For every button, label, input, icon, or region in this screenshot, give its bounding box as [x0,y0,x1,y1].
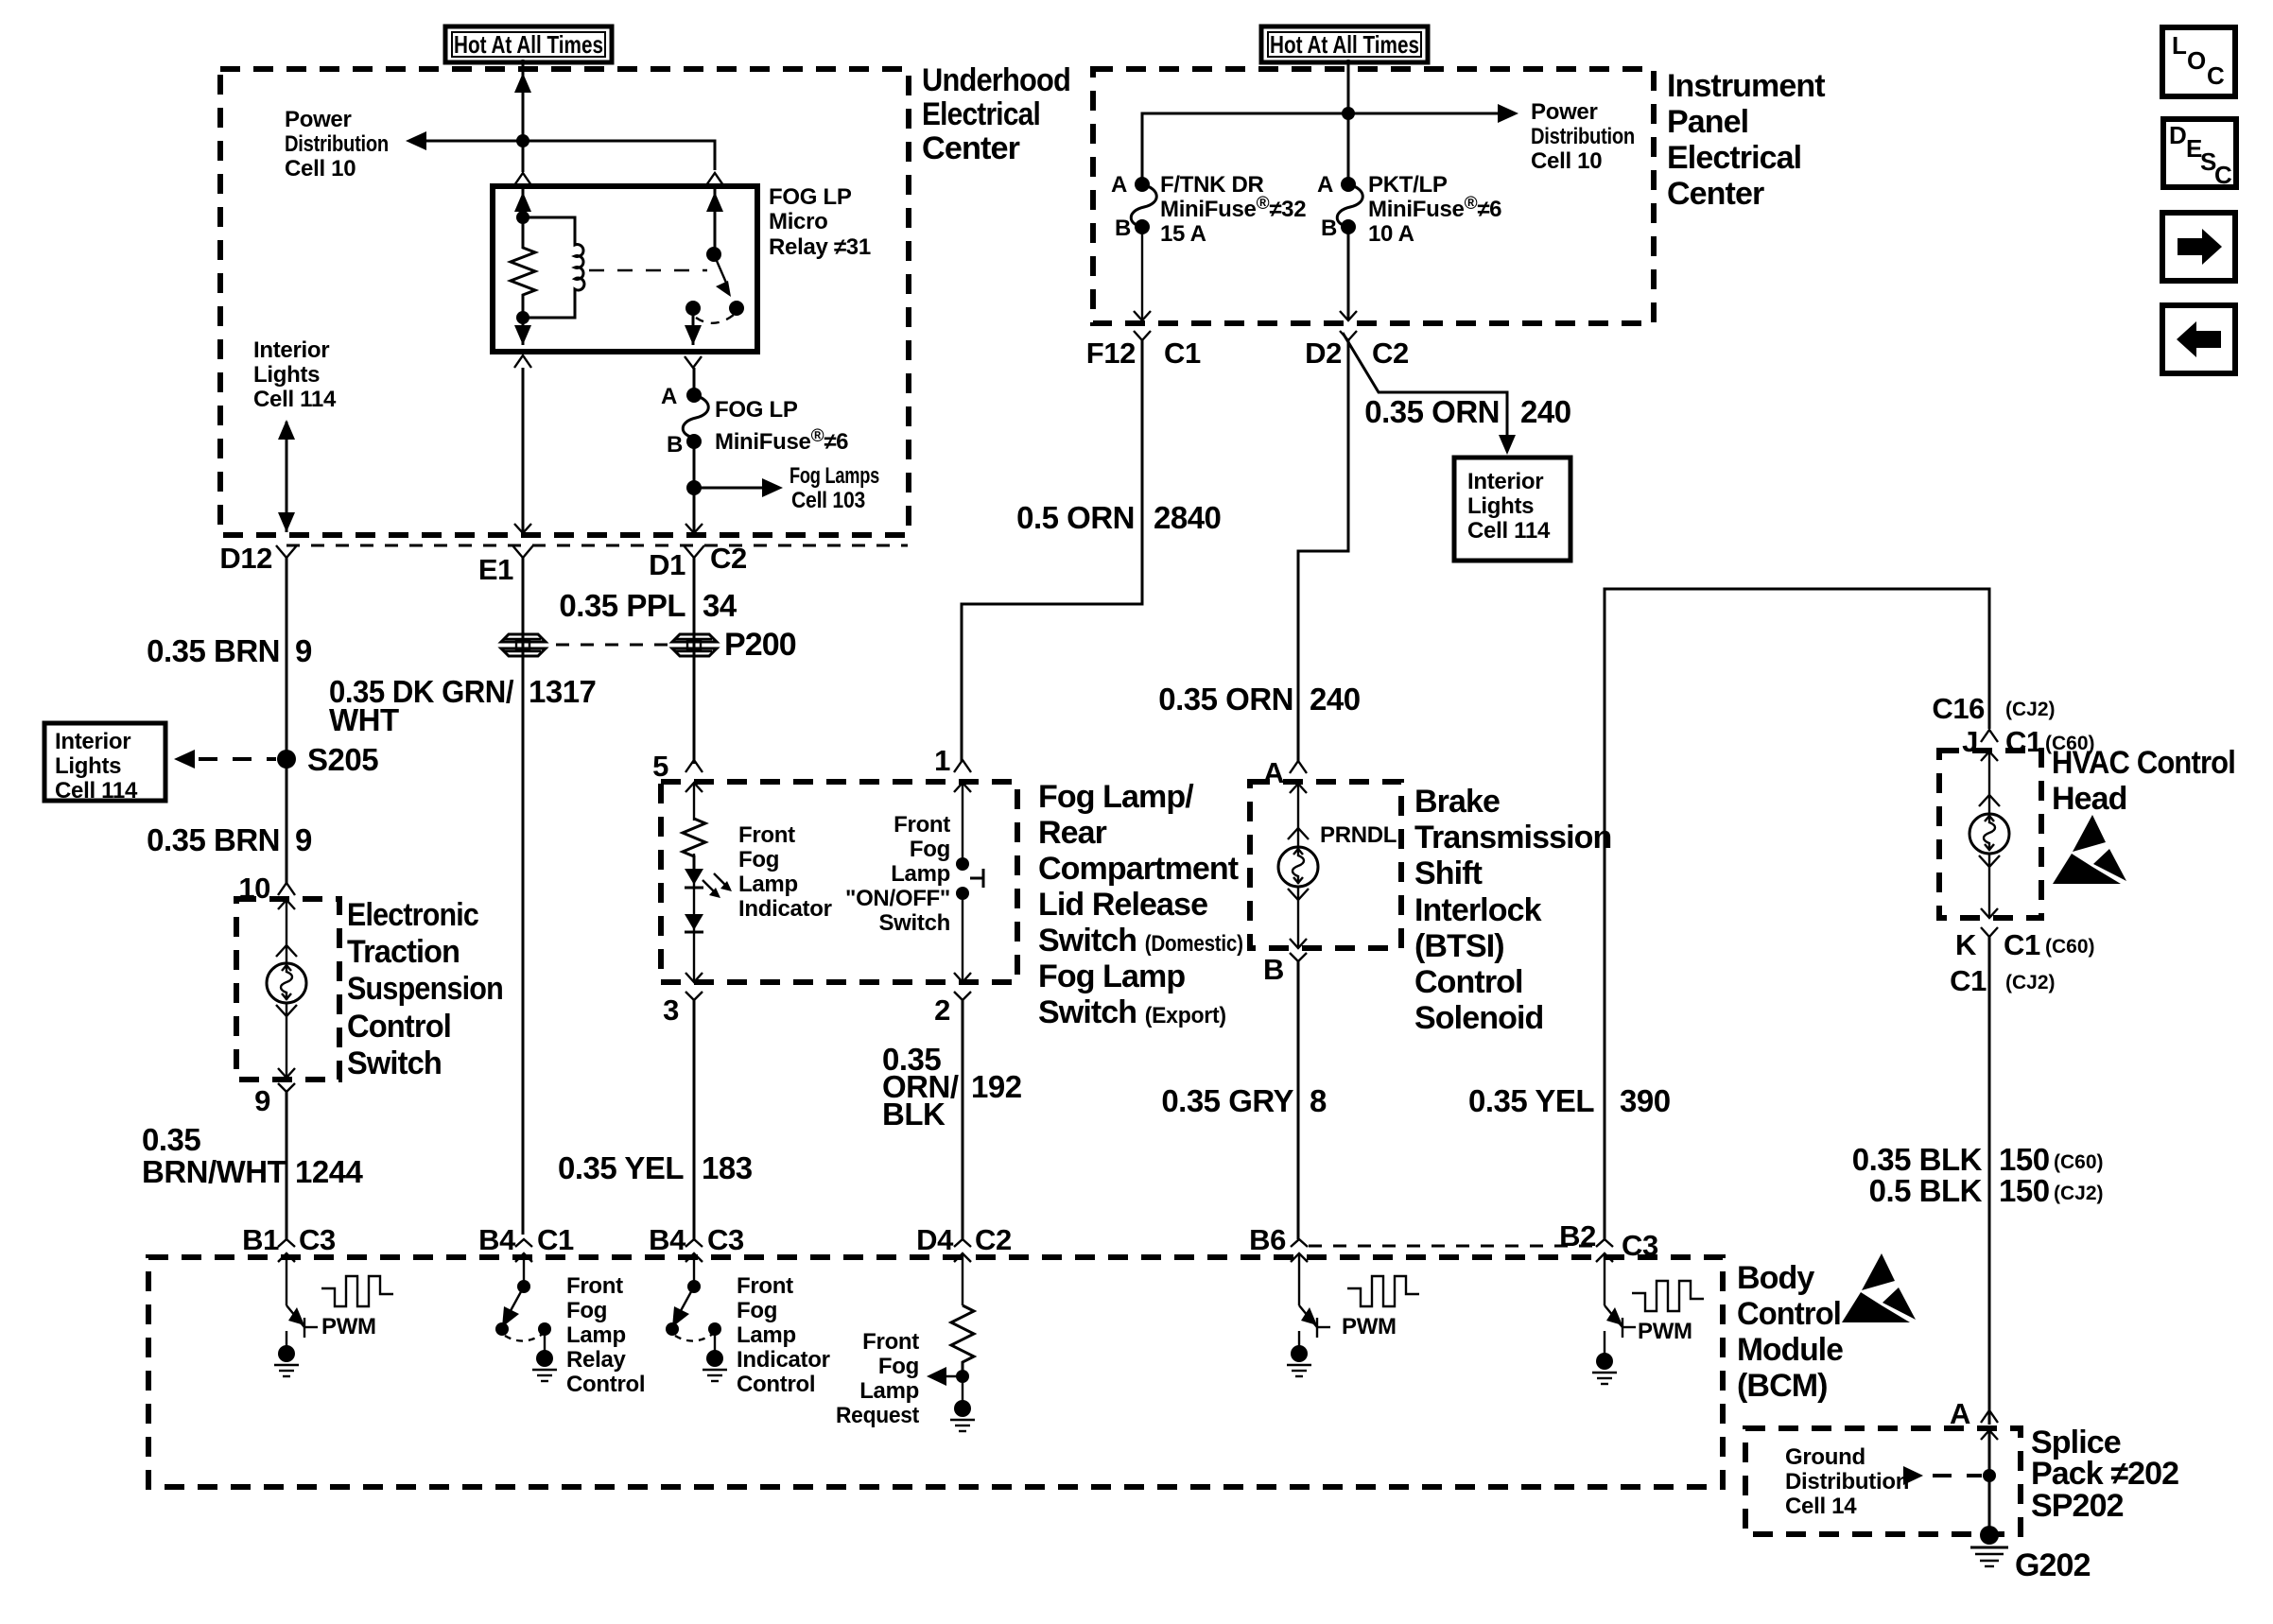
svg-text:(CJ2): (CJ2) [2005,972,2056,993]
svg-text:B2: B2 [1559,1219,1596,1253]
ESD symbol (BCM) [1842,1253,1916,1322]
arrow up interior lights (underhood) [278,420,295,440]
svg-text:C2: C2 [710,542,747,575]
arrow down inside HVAC [1981,908,1998,918]
BCM input D4: resistor to ground [927,1253,975,1431]
svg-text:0.35 YEL: 0.35 YEL [1468,1083,1594,1118]
svg-text:C1: C1 [1950,964,1987,997]
arrow left power distribution (underhood) [406,131,426,150]
BCM switch B4/C3: indicator control output [666,1253,727,1381]
node junction hot/power dist (underhood) [516,134,529,147]
wire indicator leg lower inside fog switch [693,953,695,982]
wire 0.35 ORN 240 run to BTSI [1298,338,1348,762]
fuse PKT/LP MiniFuse #6 element [1337,184,1362,227]
connector dashed link B6 to B2 [1309,1245,1594,1248]
svg-text:C1: C1 [537,1223,574,1256]
svg-text:1244: 1244 [295,1154,364,1189]
wire B2 riser to HVAC feed [1605,589,1989,1239]
svg-text:B1: B1 [242,1223,279,1256]
dashed throw arc of relay switch [696,315,734,323]
wire HVAC lower inside [1988,854,1990,918]
wire E1 inside underhood box [522,368,525,533]
svg-text:1: 1 [934,744,950,777]
svg-text:3: 3 [663,993,679,1027]
node SP202 junction [1983,1469,1996,1482]
box Underhood Electrical Center (dashed) [220,69,909,535]
svg-text:0.35 BRN: 0.35 BRN [147,633,280,668]
wire BTSI upper inside [1297,783,1299,847]
BCM driver B2: transistor, ground [1592,1253,1636,1384]
arrow up inside BTSI [1290,784,1307,793]
icon DESC box [2163,119,2236,189]
svg-text:D: D [2169,121,2187,149]
connector chevron D2/C2 [1340,331,1357,340]
box Instrument Panel Electrical Center (dashed) [1093,69,1654,323]
svg-text:0.35 BLK: 0.35 BLK [1852,1142,1983,1177]
svg-text:L: L [2172,31,2187,60]
connector chevron C16/J [1981,730,1998,742]
node fog lamps tap junction [686,480,702,495]
fuse FOG LP MiniFuse #6 element [683,395,708,438]
svg-text:E1: E1 [478,553,513,586]
arrow right fog lamps [762,478,783,497]
connector chevron relay switch pin top [706,173,723,185]
wire E1 segment below underhood box [522,558,525,1235]
arrow down D2 at instrument box bottom [1340,311,1357,320]
box Splice Pack 202 (dashed) [1745,1428,2021,1534]
svg-text:PWM: PWM [1342,1314,1397,1339]
box Interior Lights Cell 114 (instrument branch) [1454,458,1570,561]
node relay coil bottom junction [516,311,529,324]
connector chevron below relay coil pin [514,355,531,368]
svg-text:Hot At All Times: Hot At All Times [1270,30,1419,59]
svg-text:8: 8 [1310,1083,1327,1118]
lamp symbol PRNDL [1278,847,1318,887]
connector chevron pin 10 [278,883,295,895]
connector chevron E1 [512,545,533,558]
arrow down inside relay switch pin [685,325,702,345]
svg-text:(C60): (C60) [2045,936,2095,958]
wire interior lights double arrow [286,422,288,532]
fuse F/TNK DR MiniFuse #32 element [1131,184,1156,227]
wire BTSI to BCM B6 [1297,961,1300,1239]
svg-text:O: O [2187,46,2206,75]
connector chevron B4/C3 [685,1239,703,1247]
node fuse B terminal (F/TNK) [1135,219,1150,234]
dashed link between P200 halves [556,644,668,647]
wire inside traction switch lower [286,1003,287,1078]
node relay coil top junction [516,211,529,224]
box Body Control Module (dashed) [148,1257,1723,1487]
svg-text:B4: B4 [478,1223,516,1256]
wire hot feed into instrument panel box [1347,60,1350,184]
arrow down into interior lights box [1499,435,1516,455]
chevron below traction lamp [276,1005,297,1016]
svg-text:(CJ2): (CJ2) [2054,1183,2104,1204]
svg-text:B6: B6 [1249,1223,1286,1256]
on/off switch actuator bar [970,869,983,888]
node fuse A terminal (F/TNK) [1135,177,1150,192]
node junction hot/power dist (instrument) [1342,107,1355,120]
svg-text:0.35 ORN: 0.35 ORN [1364,394,1500,429]
chevron below BTSI lamp [1288,889,1309,900]
power label box "Hot At All Times" (underhood) [445,26,612,62]
svg-text:150: 150 [1999,1173,2050,1208]
box Interior Lights Cell 114 (left) [44,723,165,803]
arrow down interior lights at box bottom [278,512,295,532]
arrow down E1 at underhood box bottom [514,524,531,533]
PWM waveform (B2) [1632,1281,1704,1311]
svg-text:0.5 BLK: 0.5 BLK [1869,1173,1983,1208]
box BTSI Control Solenoid (dashed) [1250,782,1401,948]
wire fog lamps tap horizontal [694,487,764,490]
wire fuse B down to fog lamps tap [693,441,696,532]
arrow left to interior lights box [174,750,195,769]
relay coil winding [523,217,584,318]
connector chevron D12 [276,545,297,558]
connector chevron F12/C1 [1134,331,1151,340]
arrow right power distribution (instrument) [1498,104,1518,123]
wire power distribution horizontal (underhood) [426,141,715,170]
wire relay coil low side inside [522,318,525,345]
PWM waveform (B1) [321,1276,393,1306]
svg-text:0.35 PPL: 0.35 PPL [559,588,685,623]
svg-text:B: B [667,432,683,458]
box Electronic Traction Suspension Control Switch (dashed) [236,899,339,1080]
BCM switch B4/C1: relay control output [495,1253,557,1381]
wire splice pack through [1988,1430,1991,1528]
lamp symbol traction switch [267,963,306,1003]
svg-text:2: 2 [934,993,950,1027]
wire PKT/LP fuse output [1347,227,1350,320]
node relay switch arm tip [729,301,744,316]
svg-text:240: 240 [1520,394,1571,429]
BCM driver B6: transistor, ground [1287,1253,1330,1376]
svg-text:1317: 1317 [529,674,596,709]
svg-text:(C60): (C60) [2054,1151,2104,1173]
node splice S205 [277,750,296,769]
svg-text:240: 240 [1310,682,1361,717]
chevron above BTSI lamp [1288,828,1309,839]
BCM driver B1: arrow, transistor, ground [274,1253,318,1376]
node on/off switch lower contact [956,887,969,900]
arrow up inside traction switch [278,900,295,909]
svg-text:Hot At All Times: Hot At All Times [454,30,603,59]
svg-text:C2: C2 [1372,337,1409,370]
svg-text:5: 5 [652,750,668,783]
ground distribution arrow and dashed link [1903,1466,1982,1485]
svg-text:9: 9 [254,1084,270,1117]
svg-text:9: 9 [295,822,312,857]
wire D12 lower segment to BCM [286,1092,288,1239]
svg-text:C2: C2 [975,1223,1012,1256]
svg-text:D12: D12 [219,542,272,575]
node fuse B terminal (PKT/LP) [1341,219,1356,234]
wire HVAC upper inside [1988,752,1990,814]
svg-text:0.35 BRN: 0.35 BRN [147,822,280,857]
connector chevron below relay switch pin [685,356,702,368]
arrow up inside relay left pin [514,192,531,212]
wire relay output inside [692,308,695,345]
box Fog Lamp Switch (dashed) [661,782,1017,982]
svg-text:PWM: PWM [321,1314,376,1339]
power label box "Hot At All Times" (instrument panel) [1261,26,1428,62]
relay coil pin wire inside [522,189,525,218]
arrow up inside fog switch right [954,783,971,792]
wire inside traction switch upper [286,900,287,964]
wire pin3 to BCM B4/C3 [693,1000,696,1239]
svg-text:C: C [2214,161,2232,189]
arrow down inside relay left pin [514,325,531,345]
relay switch arm with arrowhead [714,254,731,297]
arrow down inside BTSI [1290,939,1307,948]
wire pin2 to BCM D4/C2 [962,1000,964,1239]
lamp symbol HVAC [1969,814,2009,854]
connector chevron pin 9 [278,1083,295,1092]
arrow up inside splice pack [1981,1430,1998,1440]
svg-text:B: B [1115,216,1131,241]
wire BTSI lower inside [1297,887,1299,948]
connector chevron pin 2 [954,992,971,1000]
connector chevron A splice [1981,1410,1998,1423]
svg-text:34: 34 [703,588,737,623]
node fuse A terminal (PKT/LP) [1341,177,1356,192]
label 0.5 BLK 150 (CJ2) [1869,1173,2104,1208]
connector chevron B1/C3 [278,1239,295,1247]
PWM waveform (B6) [1347,1276,1419,1306]
resistor inside relay [511,217,535,318]
connector chevron B6 [1291,1239,1308,1247]
svg-text:PRNDL: PRNDL [1320,822,1397,848]
relay actuation dashed link [589,269,707,271]
arrow up at underhood box top [514,73,531,93]
svg-text:D1: D1 [649,548,685,581]
chevron below HVAC lamp [1979,855,2000,867]
wire on/off switch upper inside [962,783,963,864]
wire on/off switch lower inside [962,893,963,982]
arrow up inside HVAC [1981,752,1998,761]
svg-text:0.5 ORN: 0.5 ORN [1016,500,1135,535]
svg-text:B: B [1263,953,1284,986]
svg-text:C3: C3 [1622,1229,1658,1262]
icon back-arrow box [2162,305,2235,373]
node fuse B terminal (fog lp) [686,434,702,449]
wire 0.5 ORN 2840 run [962,338,1142,762]
wire indicator leg upper inside fog switch [693,783,695,821]
node on/off switch upper contact [956,857,969,871]
wire HVAC ground run [1988,937,1991,1425]
svg-text:S205: S205 [307,742,378,777]
arrow down inside traction switch [278,1068,295,1078]
connector chevron relay coil pin top [514,173,531,185]
svg-text:G202: G202 [2015,1547,2091,1583]
svg-text:183: 183 [702,1150,753,1185]
chevron above HVAC lamp [1979,795,2000,806]
arrow up inside relay right pin [706,192,723,212]
relay switch pivot wire [714,189,717,249]
svg-text:2840: 2840 [1154,500,1221,535]
connector chevron B4/C1 [515,1239,532,1247]
wire branch 0.35 ORN 240 to interior lights [1343,333,1507,435]
wire hot feed into underhood box [522,60,525,141]
svg-text:C16: C16 [1932,692,1985,725]
svg-text:D2: D2 [1305,337,1342,370]
svg-text:C: C [2207,61,2225,90]
wire D1 segment below underhood box [693,558,696,764]
node fuse A terminal (fog lp) [686,388,702,403]
wire relay coil feed upper [522,141,525,172]
svg-text:P200: P200 [724,627,796,663]
svg-text:A: A [1950,1397,1970,1430]
svg-text:PWM: PWM [1638,1319,1692,1344]
svg-text:(CJ2): (CJ2) [2005,699,2056,720]
svg-text:C3: C3 [299,1223,336,1256]
svg-text:A: A [1317,172,1333,198]
icon LOC box [2162,27,2235,96]
svg-text:C1: C1 [1164,337,1201,370]
connector chevron pin A BTSI [1290,761,1307,773]
relay box FOG LP Micro Relay #31 [493,186,757,352]
ESD symbol (HVAC) [2053,815,2126,884]
svg-text:B: B [1321,216,1337,241]
inline connector P200 on E1 wire [501,634,546,656]
arrow down F12 at instrument box bottom [1134,311,1151,320]
arrow down inside fog switch right [954,973,971,982]
wire D12 segment to S205 [286,558,288,883]
svg-text:F12: F12 [1086,337,1136,370]
svg-text:A: A [661,384,677,409]
inline connector P200 on D1 wire [672,634,717,656]
label 0.35 BLK 150 (C60) [1852,1142,2104,1177]
resistor front fog lamp indicator [683,819,705,870]
box HVAC Control Head (dashed) [1939,751,2041,918]
svg-text:0.35 YEL: 0.35 YEL [558,1150,684,1185]
svg-text:A: A [1111,172,1127,198]
chevron above traction lamp [276,945,297,957]
node relay switch pivot [706,247,721,262]
svg-text:C1: C1 [2004,928,2040,961]
connector chevron pin 1 [954,760,971,772]
connector chevron pin 3 [685,992,703,1000]
node relay switch fixed contact [685,301,701,316]
svg-text:150: 150 [1999,1142,2050,1177]
arrow down inside fog switch left [685,973,703,982]
connector chevron D1/C2 [684,545,704,558]
icon forward-arrow box [2162,213,2235,281]
connector chevron pin B BTSI [1290,953,1307,961]
wire power distribution horizontal (instrument) [1142,113,1500,184]
LED front fog lamp indicator [685,854,703,953]
connector chevron K/C1 [1981,927,1998,937]
dashed wire S205 to interior lights [199,757,276,761]
connector chevron pin 5 [685,760,703,772]
wire D1 relay to fuse A [693,368,696,395]
svg-text:K: K [1955,928,1977,961]
svg-text:B4: B4 [649,1223,686,1256]
ground G202 symbol [1970,1526,2008,1566]
svg-text:192: 192 [971,1069,1022,1104]
arrow up inside fog switch left [685,783,703,792]
svg-text:0.35 GRY: 0.35 GRY [1161,1083,1293,1118]
svg-text:9: 9 [295,633,312,668]
svg-text:D4: D4 [916,1223,954,1256]
svg-text:C3: C3 [707,1223,744,1256]
connector chevron D4/C2 [954,1239,971,1247]
wire F/TNK fuse output [1141,227,1143,320]
arrow down D1 at underhood box bottom [685,524,703,533]
indicator emission arrows [703,873,732,898]
connector chevron B2/C3 [1596,1239,1613,1247]
svg-text:390: 390 [1620,1083,1671,1118]
svg-text:0.35 ORN: 0.35 ORN [1158,682,1293,717]
connector dashed line C2 (underhood bottom) [286,544,908,547]
